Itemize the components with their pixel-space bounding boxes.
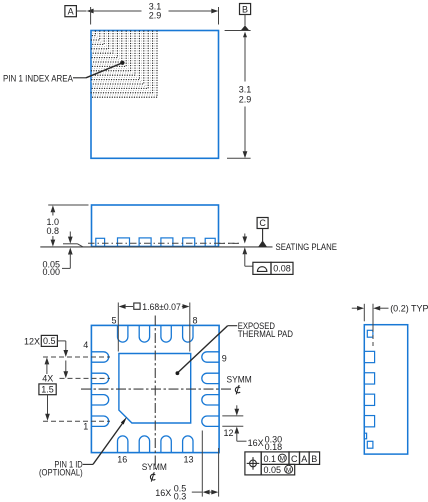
svg-text:16X: 16X: [155, 488, 171, 498]
svg-text:(OPTIONAL): (OPTIONAL): [39, 467, 83, 477]
svg-text:5: 5: [111, 316, 116, 326]
top view: package body outline: [91, 31, 219, 159]
bottom view: package body outline: [91, 325, 219, 452]
dimension 4X 1.5: [45, 357, 50, 364]
svg-text:SYMM: SYMM: [227, 375, 252, 385]
svg-text:9: 9: [222, 353, 227, 363]
svg-text:4: 4: [83, 340, 88, 350]
dimension 1.0/0.8 (side height): [48, 204, 88, 206]
dimension 3.1/2.9 vertical (right): [225, 30, 251, 32]
svg-text:0.1: 0.1: [264, 454, 277, 464]
pin 4 centerline: [43, 356, 110, 358]
left step of seating line: [63, 243, 78, 245]
side view terminal squares: [364, 330, 375, 448]
exposed thermal pad outline: [119, 354, 191, 424]
svg-text:16: 16: [117, 455, 127, 465]
svg-text:4X: 4X: [42, 374, 53, 384]
lead bottom dashed line: [88, 242, 241, 244]
svg-text:SEATING PLANE: SEATING PLANE: [276, 242, 338, 252]
datum C: [257, 218, 268, 229]
top row pins 5-8: [118, 326, 194, 342]
svg-text:B: B: [242, 5, 248, 15]
svg-text:0.05: 0.05: [264, 465, 282, 475]
svg-text:B: B: [311, 454, 317, 464]
svg-text:M: M: [280, 456, 285, 463]
svg-text:0.18: 0.18: [265, 442, 283, 452]
datum B: [240, 4, 251, 15]
seating plane line: [40, 246, 272, 248]
right column pins 9-12: [202, 352, 219, 427]
pin 1 centerline: [43, 420, 110, 422]
svg-text:(0.2) TYP: (0.2) TYP: [390, 304, 428, 314]
pin 1 index area hatch: [91, 31, 157, 97]
dimension 16X 0.30/0.18 (pin width): [222, 415, 243, 417]
svg-text:M: M: [286, 467, 291, 474]
svg-text:0.8: 0.8: [46, 226, 59, 236]
dimension 1.68±0.07 (thermal pad): [117, 303, 119, 352]
svg-text:12: 12: [224, 428, 234, 438]
svg-text:0.08: 0.08: [273, 264, 291, 274]
dimension 0.05/0.00 (standoff): [69, 232, 71, 239]
svg-text:PIN 1 INDEX AREA: PIN 1 INDEX AREA: [3, 73, 73, 83]
vertical centerline: [154, 316, 156, 470]
svg-text:THERMAL PAD: THERMAL PAD: [238, 329, 294, 339]
position tolerance feature control frame: [245, 452, 261, 475]
svg-text:2.9: 2.9: [149, 11, 162, 21]
svg-text:SYMM: SYMM: [142, 462, 167, 472]
dimension 16X 0.5/0.3 (pin length): [201, 431, 203, 497]
svg-text:0.3: 0.3: [174, 491, 187, 501]
svg-text:8: 8: [193, 316, 198, 326]
right dash-dot bottom extension: [219, 242, 241, 244]
svg-text:16X: 16X: [248, 438, 264, 448]
svg-text:A: A: [68, 7, 74, 17]
svg-text:C: C: [259, 218, 266, 228]
svg-text:12X: 12X: [24, 336, 40, 346]
datum A: [65, 6, 77, 17]
side view: package body outline: [92, 205, 219, 247]
svg-text:1: 1: [83, 422, 88, 432]
svg-text:1.5: 1.5: [41, 384, 54, 394]
flatness 0.08 feature control frame: [253, 262, 271, 274]
left column pins 4-1: [92, 352, 109, 427]
svg-text:C: C: [291, 454, 298, 464]
svg-text:A: A: [301, 454, 307, 464]
position symbol: [247, 457, 260, 470]
pin 3 centerline: [60, 377, 111, 379]
svg-text:2.9: 2.9: [239, 95, 252, 105]
right side view: package body: [364, 325, 407, 454]
seating plane pinch arrows: [244, 234, 246, 239]
side view terminals: [96, 238, 215, 247]
dimension (0.2) TYP: [363, 304, 365, 322]
svg-text:0.5: 0.5: [43, 336, 56, 346]
svg-text:0.00: 0.00: [42, 267, 60, 277]
svg-text:3.1: 3.1: [239, 85, 252, 95]
svg-text:1.68±0.07: 1.68±0.07: [142, 302, 181, 312]
dimension 3.1/2.9 horizontal (top): [76, 10, 86, 12]
horizontal centerline: [81, 388, 233, 390]
svg-text:13: 13: [183, 455, 193, 465]
bottom row pins 16-13: [118, 436, 194, 452]
